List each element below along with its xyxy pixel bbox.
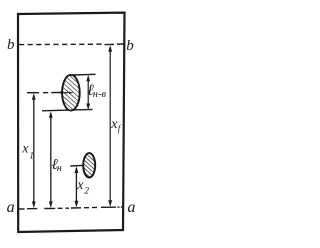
svg-text:b: b — [7, 37, 15, 53]
svg-text:b: b — [126, 38, 134, 54]
svg-text:1: 1 — [29, 152, 34, 162]
svg-text:x: x — [21, 142, 29, 157]
svg-text:2: 2 — [84, 187, 89, 197]
svg-text:x: x — [76, 178, 84, 193]
svg-text:н: н — [57, 163, 62, 174]
svg-text:a: a — [127, 199, 135, 216]
svg-text:a: a — [7, 199, 15, 216]
svg-text:н-в: н-в — [93, 89, 107, 100]
